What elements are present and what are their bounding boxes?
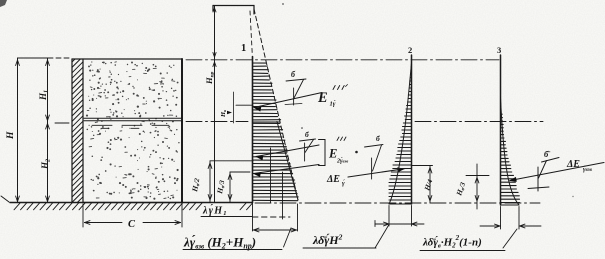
water level inside wall bbox=[84, 117, 181, 119]
wall hatched facing strip bbox=[71, 59, 73, 203]
svg-text:С: С bbox=[128, 219, 136, 230]
extension lines under diagram 1 bbox=[252, 203, 254, 231]
dashed width line (lambda gamma H1) bbox=[201, 216, 252, 218]
pressure diagram 2: right edge bbox=[411, 55, 413, 204]
level line top of wall (dash-dot) bbox=[186, 59, 499, 61]
pressure diagram 1: left edge bbox=[252, 57, 254, 203]
dimension Hb/2 bbox=[209, 161, 211, 203]
svg-text:Н: Н bbox=[6, 131, 16, 140]
dimension Hb/3 bbox=[229, 172, 231, 203]
stray scan specks bbox=[355, 151, 358, 154]
svg-text:ΔЕ: ΔЕ bbox=[566, 159, 580, 170]
svg-text:3: 3 bbox=[497, 45, 501, 55]
svg-text:Е: Е bbox=[328, 147, 337, 161]
dimension C under wall bbox=[82, 204, 84, 227]
stipple dots in wall body bbox=[86, 61, 180, 199]
diagram 3 hatching bbox=[501, 104, 520, 203]
svg-text:Нв: Нв bbox=[220, 110, 227, 118]
diagram 1 lower right edge bbox=[277, 122, 298, 201]
dimension H2 bbox=[47, 122, 49, 203]
svg-text:1γ́: 1γ́ bbox=[330, 100, 337, 108]
svg-text:2γ́взв: 2γ́взв bbox=[336, 157, 348, 165]
force E_vzv arrow a bbox=[256, 145, 319, 157]
svg-text:ΔЕ: ΔЕ bbox=[326, 174, 340, 185]
force E1 arrow bbox=[254, 93, 322, 108]
bottom width dimension diagram 3 bbox=[480, 225, 501, 227]
dimension H/4 bbox=[412, 165, 433, 167]
svg-text:1: 1 bbox=[241, 43, 246, 54]
leader from formula 3 bbox=[503, 229, 517, 248]
svg-text:2: 2 bbox=[408, 45, 412, 55]
svg-text:λδ̄γ́в·Н22(1-n): λδ̄γ́в·Н22(1-n) bbox=[422, 234, 482, 250]
wall body outline bbox=[72, 58, 182, 60]
leader from formula 2 bbox=[375, 225, 389, 249]
top bracket (surcharge width) bbox=[213, 5, 254, 7]
diagram 3 curve bbox=[501, 98, 520, 205]
pressure diagram 3: left edge bbox=[500, 55, 502, 205]
diagram 3 bottom bbox=[501, 204, 520, 206]
bottom width dimension of diagram 1 bbox=[253, 229, 298, 231]
svg-text:Е: Е bbox=[317, 90, 328, 106]
svg-text:λδ̄γ́Н2: λδ̄γ́Н2 bbox=[312, 233, 343, 248]
force dE arrow into diagram 2 bbox=[348, 169, 404, 177]
ground line bbox=[10, 202, 252, 204]
diagram 1 hatching bbox=[253, 63, 299, 201]
dimension H (outer left) bbox=[17, 58, 19, 203]
svg-text:б: б bbox=[376, 134, 380, 143]
auxiliary vertical at 233.5 bbox=[233, 92, 235, 123]
dimension H1 bbox=[47, 58, 49, 122]
diagram 1 inner divider bbox=[270, 148, 272, 203]
diagram 1 dashed fictitious edge bbox=[254, 9, 298, 200]
diagram 2 hatching bbox=[389, 67, 412, 200]
application level tick E1 bbox=[236, 104, 253, 106]
force dE_vzv arrow into diagram 3 bbox=[510, 163, 604, 181]
bottom width dimension diagram 2 bbox=[375, 223, 424, 225]
diagram 2 curve bbox=[389, 63, 412, 204]
force E_vzv arrow b bbox=[254, 165, 320, 174]
corner fleck bbox=[0, 0, 7, 7]
diagram 1 water level tick bbox=[253, 121, 281, 123]
extension lines under diagram 3 bbox=[500, 207, 502, 230]
dimension line Hpr/H1/H2 vertical bbox=[214, 6, 216, 203]
svg-text:б: б bbox=[305, 130, 309, 139]
extension lines under diagram 2 bbox=[388, 206, 390, 227]
diagram 2 bottom bbox=[389, 203, 412, 205]
leader from formula 1 to dimension bbox=[284, 228, 292, 247]
leader level Hb/3 bbox=[230, 171, 250, 173]
dimension Hb/3 right bbox=[466, 175, 489, 177]
leader level Hb/2 bbox=[210, 160, 253, 162]
bracket for E_vzv bbox=[319, 140, 326, 166]
water level line (dash-dot) bbox=[186, 121, 248, 123]
ground hatching bbox=[14, 203, 20, 210]
ground continuation (dash-dot) bbox=[255, 202, 540, 204]
